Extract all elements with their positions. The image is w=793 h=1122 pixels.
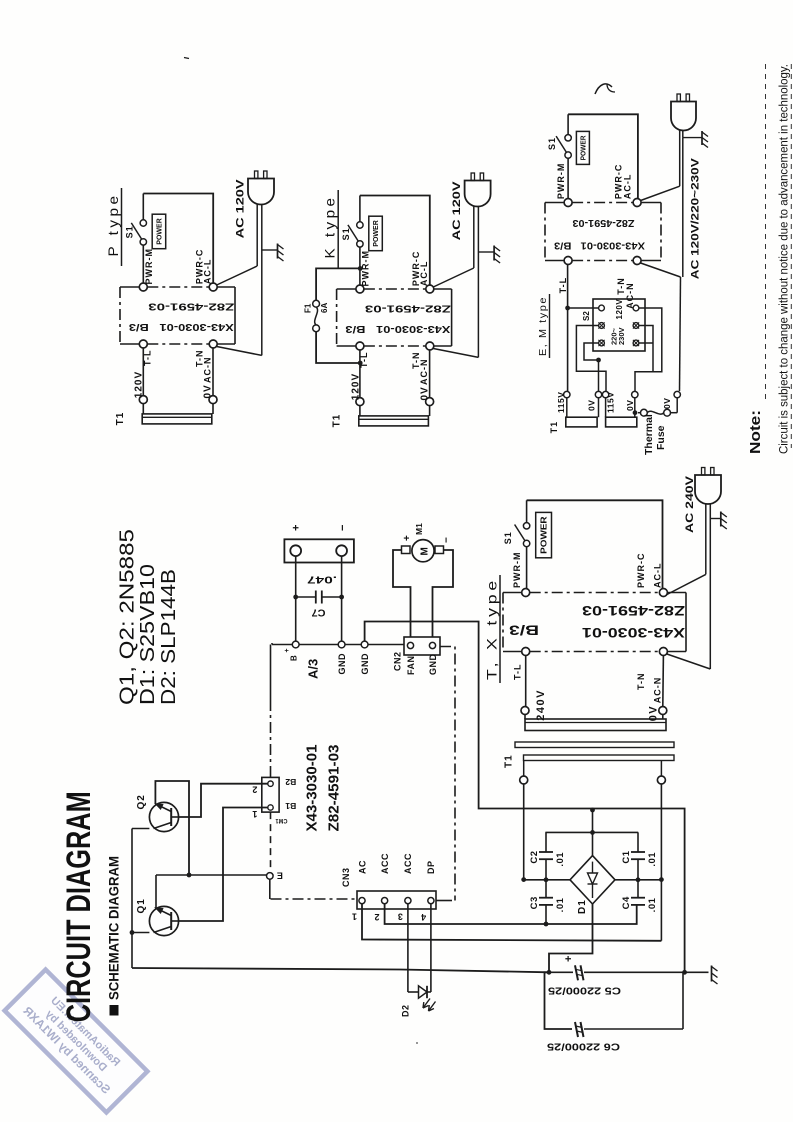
svg-text:Q1: Q1 xyxy=(136,898,147,913)
svg-text:AC 240V: AC 240V xyxy=(684,475,696,533)
svg-text:GND: GND xyxy=(337,653,347,675)
svg-text:C1: C1 xyxy=(621,850,632,863)
svg-text:AC: AC xyxy=(357,860,367,874)
svg-text:S1: S1 xyxy=(503,531,513,544)
svg-text:AC-L: AC-L xyxy=(202,259,212,285)
svg-text:0V: 0V xyxy=(662,398,672,409)
svg-text:X43-3030-01: X43-3030-01 xyxy=(582,625,685,641)
svg-text:T1: T1 xyxy=(504,754,515,768)
svg-text:Z82-4591-03: Z82-4591-03 xyxy=(582,603,685,619)
svg-text:AC-N: AC-N xyxy=(419,359,429,386)
svg-text:+: + xyxy=(291,525,303,531)
svg-text:FAN: FAN xyxy=(406,656,416,676)
svg-text:6A: 6A xyxy=(320,303,329,313)
svg-text:B/3: B/3 xyxy=(509,622,539,638)
svg-text:Note:: Note: xyxy=(748,410,764,454)
svg-text:T1: T1 xyxy=(332,414,343,428)
svg-text:C5 22000/25: C5 22000/25 xyxy=(548,985,621,997)
svg-text:E: E xyxy=(277,870,283,880)
svg-text:CN3: CN3 xyxy=(341,867,351,887)
svg-text:F1: F1 xyxy=(303,303,312,313)
svg-text:B1: B1 xyxy=(285,801,297,810)
svg-text:A/3: A/3 xyxy=(305,659,320,679)
svg-text:Q1, Q2: 2N5885: Q1, Q2: 2N5885 xyxy=(116,529,138,705)
svg-text:+: + xyxy=(402,535,413,541)
svg-text:2: 2 xyxy=(252,784,257,794)
svg-text:Circuit is subject to change w: Circuit is subject to change without not… xyxy=(778,64,790,454)
svg-text:C4: C4 xyxy=(621,896,632,909)
svg-text:X43-3030-01: X43-3030-01 xyxy=(304,745,321,832)
svg-text:Z82-4591-03: Z82-4591-03 xyxy=(326,745,343,832)
svg-text:SCHEMATIC DIAGRAM: SCHEMATIC DIAGRAM xyxy=(105,856,121,1000)
svg-text:PWR-M: PWR-M xyxy=(144,248,154,285)
svg-text:POWER: POWER xyxy=(373,220,380,247)
svg-text:PWR-M: PWR-M xyxy=(512,552,522,589)
svg-text:4: 4 xyxy=(421,912,426,922)
svg-text:X43-3030-01 B/3: X43-3030-01 B/3 xyxy=(128,321,234,332)
svg-text:AC 120V: AC 120V xyxy=(235,179,247,239)
svg-text:−: − xyxy=(337,525,349,531)
svg-text:CM1: CM1 xyxy=(275,817,287,824)
svg-text:C2: C2 xyxy=(529,850,540,863)
svg-text:Fuse: Fuse xyxy=(655,425,667,450)
svg-text:X43-3030-01 B/3: X43-3030-01 B/3 xyxy=(554,239,645,250)
svg-text:P type: P type xyxy=(105,193,121,257)
svg-text:T-N: T-N xyxy=(636,673,646,691)
svg-text:115V: 115V xyxy=(606,392,616,413)
svg-text:C3: C3 xyxy=(529,896,540,909)
svg-text:AC 120V: AC 120V xyxy=(451,181,463,241)
svg-text:CN2: CN2 xyxy=(392,651,402,671)
svg-text:E, M type: E, M type xyxy=(537,296,549,356)
svg-text:POWER: POWER xyxy=(580,135,587,160)
svg-text:.01: .01 xyxy=(647,897,658,912)
svg-text:+: + xyxy=(284,648,291,652)
svg-text:B: B xyxy=(290,655,299,661)
svg-text:DP: DP xyxy=(426,860,436,874)
svg-text:0V: 0V xyxy=(587,400,597,411)
svg-text:0V: 0V xyxy=(203,384,214,398)
svg-text:PWR-C: PWR-C xyxy=(636,553,646,589)
svg-text:Thermal: Thermal xyxy=(643,414,655,455)
svg-text:0V: 0V xyxy=(419,386,430,400)
svg-text:D2: D2 xyxy=(400,1004,410,1017)
svg-text:1: 1 xyxy=(352,911,357,921)
svg-text:2: 2 xyxy=(374,912,379,922)
svg-text:.01: .01 xyxy=(555,897,566,912)
svg-text:−: − xyxy=(442,537,453,543)
svg-text:230V: 230V xyxy=(617,327,626,345)
svg-text:0V: 0V xyxy=(625,400,635,411)
svg-text:AC-N: AC-N xyxy=(653,677,663,704)
svg-text:AC-L: AC-L xyxy=(623,174,633,200)
svg-text:POWER: POWER xyxy=(157,218,164,245)
svg-text:X43-3030-01 B/3: X43-3030-01 B/3 xyxy=(345,323,451,334)
svg-text:ACC: ACC xyxy=(380,853,390,874)
svg-text:+: + xyxy=(563,956,575,962)
svg-text:B2: B2 xyxy=(285,777,297,786)
svg-text:D1: S25VB10: D1: S25VB10 xyxy=(137,564,159,705)
svg-text:POWER: POWER xyxy=(540,516,549,554)
svg-text:.047: .047 xyxy=(306,573,337,584)
svg-text:T1: T1 xyxy=(115,412,126,426)
svg-text:120V: 120V xyxy=(134,371,145,398)
svg-text:K type: K type xyxy=(322,195,338,259)
svg-text:T1: T1 xyxy=(549,421,559,434)
svg-text:GND: GND xyxy=(428,654,438,676)
svg-text:Z82-4591-03: Z82-4591-03 xyxy=(148,300,235,311)
svg-text:T, X type: T, X type xyxy=(484,577,500,680)
svg-text:240V: 240V xyxy=(535,689,547,721)
svg-text:C6 22000/25: C6 22000/25 xyxy=(547,1041,620,1053)
svg-text:120V: 120V xyxy=(615,299,624,320)
svg-text:S2: S2 xyxy=(582,311,591,321)
svg-text:C7: C7 xyxy=(311,606,325,617)
svg-text:AC-L: AC-L xyxy=(653,563,663,589)
svg-text:T-L: T-L xyxy=(512,664,522,681)
svg-text:S1: S1 xyxy=(124,225,134,238)
svg-text:3: 3 xyxy=(398,911,403,921)
svg-text:GND: GND xyxy=(360,653,370,675)
svg-text:115V: 115V xyxy=(556,392,566,413)
svg-text:Z82-4591-03: Z82-4591-03 xyxy=(572,217,634,228)
svg-text:.01: .01 xyxy=(555,852,566,867)
svg-text:0V: 0V xyxy=(648,705,660,721)
svg-text:D2: SLP144B: D2: SLP144B xyxy=(158,569,180,705)
svg-text:Z82-4591-03: Z82-4591-03 xyxy=(364,302,451,313)
svg-text:PWR-M: PWR-M xyxy=(556,163,566,200)
svg-text:AC-N: AC-N xyxy=(625,282,635,309)
svg-text:CIRCUIT DIAGRAM: CIRCUIT DIAGRAM xyxy=(60,791,98,1022)
svg-text:M: M xyxy=(419,547,430,555)
svg-text:ACC: ACC xyxy=(403,853,413,874)
svg-text:S1: S1 xyxy=(341,227,351,240)
svg-text:T-L: T-L xyxy=(558,277,568,294)
svg-text:AC-L: AC-L xyxy=(419,261,429,287)
svg-text:.01: .01 xyxy=(647,852,658,867)
svg-text:Q2: Q2 xyxy=(136,794,147,809)
svg-text:1: 1 xyxy=(252,809,257,819)
svg-text:M1: M1 xyxy=(414,523,424,535)
svg-text:D1: D1 xyxy=(577,899,588,914)
svg-text:AC-N: AC-N xyxy=(202,357,212,384)
svg-text:AC 120V/220~230V: AC 120V/220~230V xyxy=(690,157,702,279)
svg-text:S1: S1 xyxy=(547,137,557,150)
svg-text:120V: 120V xyxy=(350,373,361,400)
